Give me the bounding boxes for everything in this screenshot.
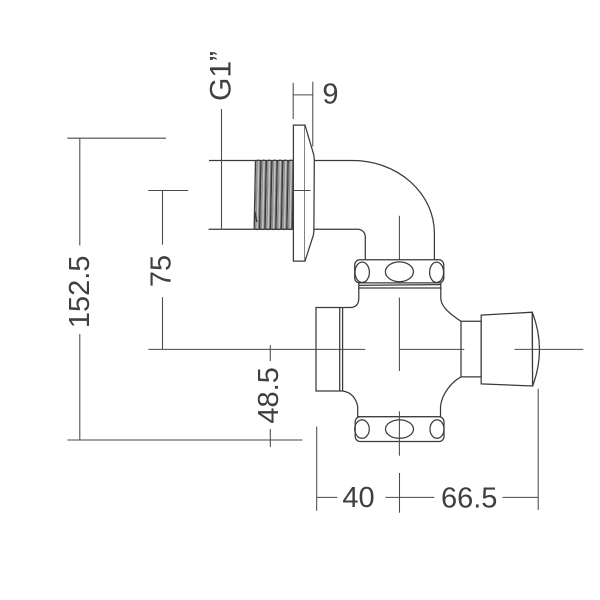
inlet pipe and elbow body fill bbox=[209, 160, 435, 261]
button axis centerline outer segment bbox=[515, 348, 584, 350]
pipe bottom edge + elbow inner fillet bbox=[209, 229, 366, 260]
dimension 75 line lower segment bbox=[162, 297, 164, 349]
valve vertical centerline above top nut bbox=[398, 216, 400, 260]
bottom coupling nut bbox=[355, 417, 444, 442]
seal ring under top coupling nut bbox=[359, 284, 441, 287]
dimension 152.5 line lower segment bbox=[79, 334, 81, 440]
dimension 75 top extension line bbox=[148, 190, 188, 192]
dimension 152.5 top extension line bbox=[67, 137, 166, 139]
wall flange plate bbox=[293, 125, 305, 261]
valve vertical centerline through body bbox=[398, 298, 400, 372]
svg-text:48.5: 48.5 bbox=[253, 367, 285, 423]
svg-text:9: 9 bbox=[322, 79, 338, 111]
push button convex face bbox=[532, 312, 539, 386]
dimension 152.5 line upper segment bbox=[79, 138, 81, 245]
dimension 66.5 line right segment bbox=[503, 496, 539, 498]
outlet centerline / 48.5 top extension bbox=[148, 348, 365, 350]
push button bbox=[481, 312, 532, 386]
valve body outline bbox=[316, 288, 481, 417]
dimension 66.5 right extension line bbox=[537, 389, 539, 510]
dimension 48.5 line lower tick bbox=[269, 429, 271, 447]
pipe top edge + elbow outer curve bbox=[209, 160, 434, 260]
dimension 40 line left segment bbox=[317, 496, 338, 498]
body wall stubs up to coupling nut bbox=[358, 283, 360, 289]
outlet stub face double line bbox=[339, 308, 341, 392]
extension line for G1 label bbox=[221, 109, 223, 230]
dimension 40/66.5 middle extension line bbox=[399, 473, 401, 513]
dimension 152.5 bottom extension line bbox=[67, 439, 302, 441]
dimension 9 right extension line bbox=[312, 82, 314, 147]
wall flange cone bbox=[305, 125, 314, 261]
dimension 40 left extension line bbox=[316, 427, 318, 511]
dimension 40/66.5 line middle segment bbox=[385, 496, 434, 498]
svg-text:152.5: 152.5 bbox=[64, 256, 96, 329]
button axis centerline inner segment bbox=[400, 348, 464, 350]
svg-text:66.5: 66.5 bbox=[441, 483, 497, 515]
button boss edge bbox=[460, 321, 462, 377]
dimension 48.5 line upper tick bbox=[269, 345, 271, 361]
valve vertical centerline through bottom nut bbox=[398, 411, 400, 455]
top coupling nut bbox=[355, 260, 444, 283]
svg-text:40: 40 bbox=[342, 482, 374, 514]
svg-text:G1”: G1” bbox=[204, 51, 237, 101]
inlet axis tick across flange bbox=[293, 190, 310, 192]
svg-text:75: 75 bbox=[146, 255, 178, 287]
dimension 75 line upper segment bbox=[162, 191, 164, 245]
G1 male thread bbox=[254, 160, 294, 230]
dimension 9 line bbox=[293, 94, 313, 96]
dimension 9 left extension line bbox=[292, 83, 294, 119]
